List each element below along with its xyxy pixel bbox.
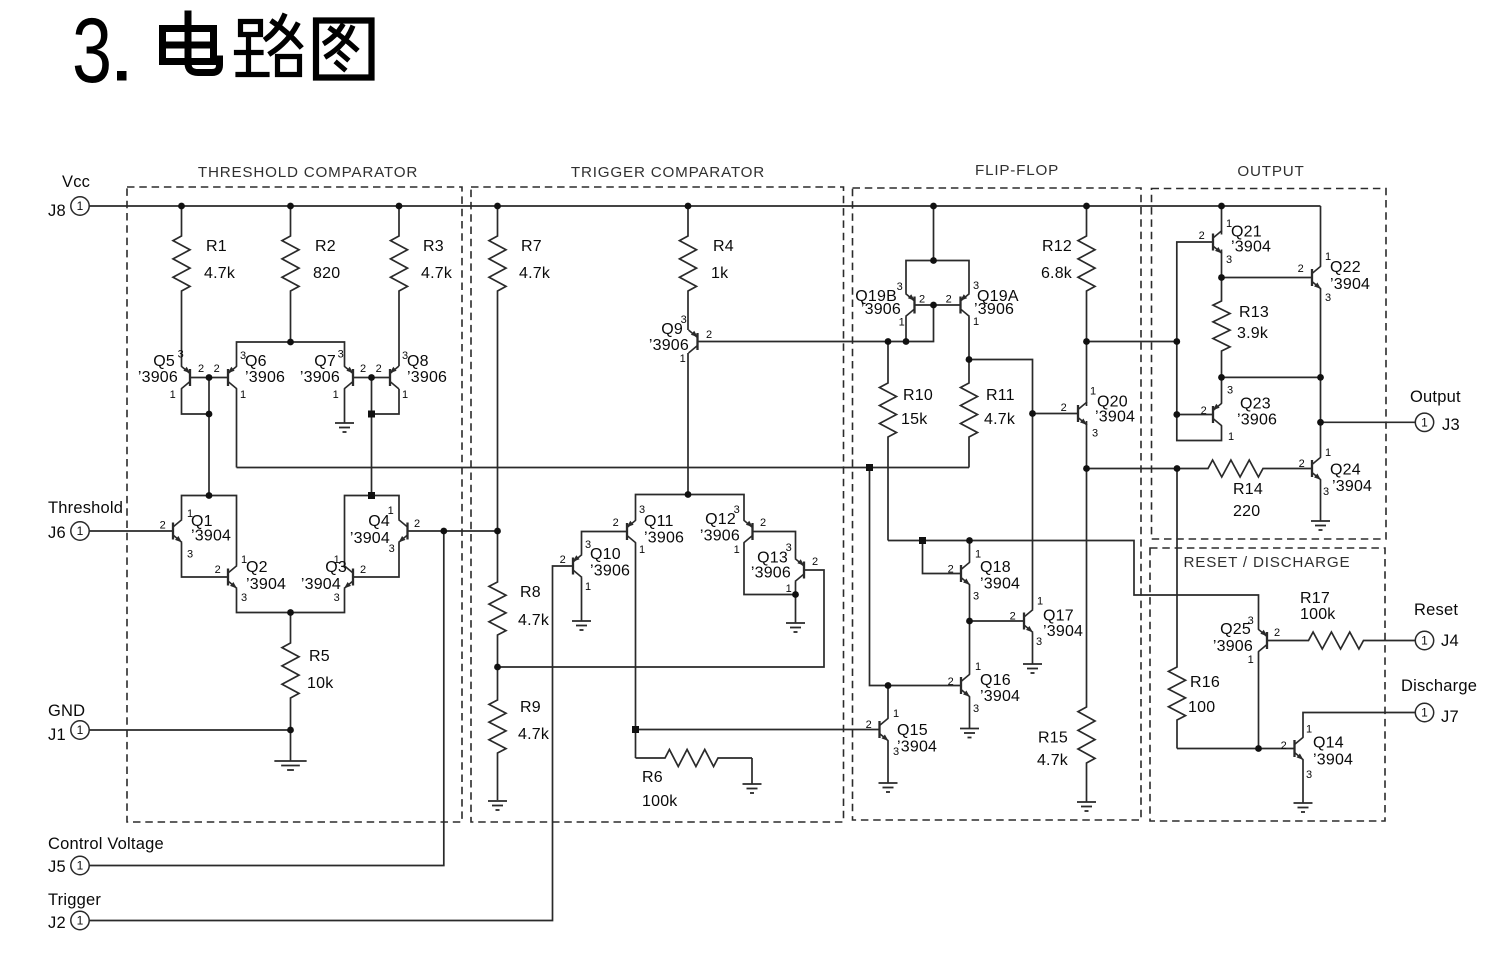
svg-text:Q10: Q10 [590,546,621,563]
svg-text:2: 2 [948,564,954,576]
junction Q19 emitters [930,257,937,264]
transistor Q15 '3904 [866,708,937,758]
wire Vcc rail [89,205,1321,207]
wire J1 GND input [89,729,291,731]
resistor R12 6.8k [1041,206,1095,342]
svg-text:3: 3 [1092,428,1098,440]
svg-text:Q5: Q5 [153,353,175,370]
resistor R16 100 [1169,469,1220,749]
wire Q20 collector to R12 [1086,342,1088,407]
svg-text:’3906: ’3906 [590,563,630,580]
svg-text:R16: R16 [1190,674,1220,691]
svg-text:3: 3 [973,703,979,715]
wire R16 bottom to Q14 base [1177,748,1295,750]
svg-text:1: 1 [1090,386,1096,398]
svg-text:2: 2 [760,517,766,529]
svg-text:2: 2 [160,520,166,532]
ground at Q17 emitter [1023,633,1042,674]
svg-text:1: 1 [899,317,905,329]
junction Q19B collector [903,338,910,345]
connector J7 pin 1 [1415,703,1433,721]
svg-text:Q25: Q25 [1220,621,1251,638]
ground at Q15 emitter [879,741,898,792]
ground at R6 [743,758,762,793]
junction R2 bottom [287,339,294,346]
connector J3 pin 1 [1415,413,1433,431]
svg-text:’3904: ’3904 [1095,409,1135,426]
junction Q5 collector tie [206,411,213,418]
junction Q21 emitter / Q22 base / R13 [1218,274,1225,281]
junction Q8 collector tie [368,411,375,418]
svg-text:2: 2 [866,719,872,731]
svg-text:2: 2 [1281,740,1287,752]
svg-text:Q11: Q11 [644,513,674,530]
ground at Q16 emitter [960,697,979,738]
svg-text:Vcc: Vcc [62,173,90,191]
svg-text:2: 2 [198,363,204,375]
svg-text:100k: 100k [1300,606,1336,623]
transistor Q4 '3904 [350,505,420,555]
ground at Q12/Q13 collectors [786,595,805,633]
svg-text:’3906: ’3906 [644,530,684,547]
wire Q18 base drop [923,541,962,574]
svg-text:’3906: ’3906 [138,369,178,386]
junction Q18 emitter / Q17 base / Q16 collector [966,618,973,625]
wire Q20 base stub [1033,413,1079,415]
resistor R2 820 [282,206,340,342]
svg-text:R14: R14 [1233,481,1263,498]
connector J6 pin 1 [71,522,89,540]
svg-text:1: 1 [1421,634,1428,648]
transistor Q9 '3906 [649,314,712,365]
svg-text:J4: J4 [1441,632,1459,650]
transistor Q19A '3906 [946,280,1019,328]
svg-text:THRESHOLD COMPARATOR: THRESHOLD COMPARATOR [198,164,418,181]
svg-text:3: 3 [72,0,112,102]
section box THRESHOLD COMPARATOR [127,187,462,822]
svg-text:1k: 1k [711,265,729,282]
junction Vcc/R1 [178,203,185,210]
svg-text:’3904: ’3904 [897,739,937,756]
svg-text:4.7k: 4.7k [204,265,236,282]
wire Q19 emitter box [906,261,969,294]
svg-text:3: 3 [241,592,247,604]
resistor R1 4.7k [173,206,236,366]
wire Q14 collector to J7 discharge [1303,713,1416,738]
transistor Q21 '3904 [1199,218,1271,266]
svg-text:J8: J8 [48,202,66,220]
transistor Q3 '3904 [301,554,366,604]
svg-text:1: 1 [585,581,591,593]
transistor Q10 '3906 [560,539,630,593]
svg-text:’3904: ’3904 [1231,239,1271,256]
svg-text:2: 2 [919,294,925,306]
svg-text:J6: J6 [48,524,66,542]
svg-text:1: 1 [1037,596,1043,608]
svg-text:J3: J3 [1442,416,1460,434]
svg-text:1: 1 [333,389,339,401]
svg-text:R2: R2 [315,238,336,255]
ground at Q24 emitter [1311,480,1330,530]
wire J5 control voltage input [89,531,444,866]
svg-text:1: 1 [77,524,84,538]
ground at Q7 collector [335,389,354,432]
junction Vcc/R2 [287,203,294,210]
svg-text:’3904: ’3904 [1332,478,1372,495]
wire Q7-Q8 base row [353,377,390,379]
junction Q19 bases [930,302,937,309]
svg-text:Q2: Q2 [246,559,268,576]
wire Vcc to Q19 box [933,206,935,261]
wire Q1 collector box [182,496,237,566]
transistor Q5 '3906 [138,349,204,402]
junction Vcc/R4 [685,203,692,210]
svg-text:R13: R13 [1239,304,1269,321]
svg-text:1: 1 [77,199,84,213]
wire trigger comparator output to Q15 base [636,729,880,731]
svg-text:’3906: ’3906 [1213,638,1253,655]
junction Q20 collector / R12 [1083,338,1090,345]
junction output stage input [1173,338,1180,345]
svg-text:’3906: ’3906 [861,301,901,318]
transistor Q19B '3906 [855,281,925,329]
svg-text:Control Voltage: Control Voltage [48,835,164,853]
svg-text:3: 3 [1036,636,1042,648]
svg-text:J2: J2 [48,914,66,932]
svg-text:R6: R6 [642,769,663,786]
wire Q2/Q3 emitter tie [237,589,345,613]
svg-text:OUTPUT: OUTPUT [1237,163,1304,180]
svg-text:Output: Output [1410,388,1461,406]
svg-text:Q22: Q22 [1330,259,1361,276]
svg-text:R3: R3 [423,238,444,255]
svg-text:TRIGGER COMPARATOR: TRIGGER COMPARATOR [571,164,765,181]
wire Q8 collector tie [372,389,400,414]
junction Q15 collector / Q16 base [885,682,892,689]
svg-text:1: 1 [680,353,686,365]
transistor Q18 '3904 [948,549,1020,603]
svg-text:Q17: Q17 [1043,608,1074,625]
resistor R6 100k [636,750,753,811]
svg-text:Trigger: Trigger [48,891,101,909]
resistor R5 10k [282,613,334,731]
svg-text:Q6: Q6 [245,353,267,370]
wire Q9 collector drop [687,353,689,495]
resistor R17 100k [1267,590,1416,649]
wire Q7/Q8 base drop to Q4 mirror [371,378,373,496]
junction Q20 emitter / R15 [1083,465,1090,472]
svg-text:Q4: Q4 [368,513,390,530]
junction Vcc/R7 [494,203,501,210]
wire Q20 emitter drop [1086,421,1088,469]
junction GND node [287,727,294,734]
ground at Q10 collector [572,578,591,631]
wire Q21 collector to rail [1221,206,1223,235]
transistor Q7 '3906 [300,349,366,402]
transistor Q8 '3906 [376,350,447,401]
junction Q9 collector / Q11 Q12 emitters [685,491,692,498]
wire Q15 collector stub [887,686,889,719]
connector J2 pin 1 [71,911,89,929]
svg-text:2: 2 [215,564,221,576]
svg-text:4.7k: 4.7k [1037,752,1069,769]
svg-text:3: 3 [334,592,340,604]
svg-text:1: 1 [1248,654,1254,666]
wire Q20 emitter row to R14 node [1087,468,1178,470]
svg-text:10k: 10k [307,675,334,692]
wire R2 bottom to Q6/Q7 emitters [237,342,345,366]
junction control voltage / Q4 base [440,528,447,535]
svg-text:100k: 100k [642,793,678,810]
transistor Q23 '3906 [1201,385,1277,444]
svg-text:3: 3 [178,349,184,361]
svg-text:1: 1 [77,859,84,873]
svg-text:3: 3 [1325,292,1331,304]
svg-text:’3904: ’3904 [350,530,390,547]
junction Q19A collector / R11 [966,356,973,363]
junction Q12/Q13 collectors [792,591,799,598]
transistor Q25 '3906 [1213,615,1280,666]
svg-text:1: 1 [170,389,176,401]
svg-text:4.7k: 4.7k [421,265,453,282]
transistor Q24 '3904 [1299,447,1372,498]
svg-text:’3906: ’3906 [300,369,340,386]
junction Q11 collector / R6 node [632,726,639,733]
transistor Q13 '3906 [751,542,818,595]
svg-text:Q14: Q14 [1313,735,1344,752]
svg-text:R11: R11 [986,387,1015,404]
svg-text:1: 1 [240,389,246,401]
transistor Q2 '3904 [215,554,286,604]
resistor R3 4.7k [391,206,453,366]
junction Q8 collector tie [368,411,375,418]
svg-text:1: 1 [77,723,84,737]
wire Q4 emitter to Q3 base [353,543,399,578]
svg-text:2: 2 [414,518,420,530]
junction R10 top [885,338,892,345]
svg-text:GND: GND [48,702,85,720]
wire Q18 collector stub [969,541,971,563]
junction Vcc/R3 [396,203,403,210]
svg-text:2: 2 [360,564,366,576]
junction Q25 collector / Q14 base [1255,745,1262,752]
svg-text:4.7k: 4.7k [519,265,551,282]
wire Q17 base stub [970,620,1025,622]
svg-text:’3906: ’3906 [974,301,1014,318]
svg-text:Q16: Q16 [980,672,1011,689]
svg-text:3: 3 [897,281,903,293]
ground at Q14 emitter [1294,760,1313,812]
svg-text:3: 3 [1226,254,1232,266]
svg-text:Q15: Q15 [897,722,928,739]
svg-text:2: 2 [360,363,366,375]
svg-text:15k: 15k [901,411,928,428]
transistor Q12 '3906 [700,504,766,556]
junction Q5 base [206,374,213,381]
svg-text:’3906: ’3906 [245,369,285,386]
svg-text:R12: R12 [1042,238,1072,255]
wire Q23 emitter stub [1221,377,1223,403]
svg-text:1: 1 [1421,416,1428,430]
svg-text:3: 3 [973,591,979,603]
wire Q11/Q12 emitter box [636,495,745,521]
wire Q25 collector drop [1258,652,1260,749]
svg-text:’3906: ’3906 [649,337,689,354]
junction Q18 base node [919,537,926,544]
svg-text:3.9k: 3.9k [1237,325,1269,342]
connector J8 pin 1 [71,197,89,215]
wire Q5/Q6 base drop to Q1 mirror [208,378,210,496]
wire Q21 base / Q23 collector loop [1177,242,1222,441]
svg-text:1: 1 [1325,447,1331,459]
junction Vcc/Q19 [930,203,937,210]
svg-text:’3904: ’3904 [301,576,341,593]
svg-text:’3906: ’3906 [1237,412,1277,429]
svg-text:R4: R4 [713,238,734,255]
svg-text:2: 2 [613,517,619,529]
wire J6 threshold input to Q1 base [89,530,174,532]
svg-text:2: 2 [812,556,818,568]
svg-text:2: 2 [1199,230,1205,242]
svg-text:’3906: ’3906 [751,565,791,582]
svg-text:3: 3 [187,549,193,561]
svg-text:2: 2 [376,363,382,375]
svg-text:1: 1 [77,914,84,928]
svg-text:2: 2 [706,329,712,341]
junction Vcc/Q21 [1218,203,1225,210]
svg-text:2: 2 [1061,402,1067,414]
junction Q18 collector / R11 node [966,537,973,544]
junction Q4 collector node [368,492,375,499]
wire Q5-Q6 base row [190,377,228,379]
wire Q18 emitter to node [969,585,971,621]
svg-text:100: 100 [1188,699,1215,716]
wire Q4 base to R7/R8 divider [408,530,498,532]
resistor R15 4.7k [1037,469,1095,803]
junction Q23 base [1173,411,1180,418]
svg-text:R17: R17 [1300,590,1330,607]
svg-text:Q23: Q23 [1240,396,1271,413]
wire Q5 collector tie [182,389,210,414]
ground at R15 bottom [1077,802,1096,811]
svg-text:J7: J7 [1441,708,1459,726]
wire Q19B-Q19A base row [915,304,961,306]
svg-text:2: 2 [1010,611,1016,623]
junction Q1 collector node [206,492,213,499]
svg-text:Q24: Q24 [1330,462,1361,479]
wire Q6 collector drop [236,389,238,468]
svg-text:1: 1 [402,389,408,401]
wire Q9 base to flip-flop [698,305,934,342]
junction Q20 base [1029,410,1036,417]
svg-text:J5: J5 [48,858,66,876]
svg-text:Q9: Q9 [661,321,683,338]
junction R13 / Q23 emitter [1218,374,1225,381]
wire Q11 collector drop [635,543,637,730]
svg-text:3: 3 [1227,385,1233,397]
connector J1 pin 1 [71,721,89,739]
svg-text:Q12: Q12 [705,511,736,528]
wire Q19B collector drop [905,317,907,342]
wire Q21 emitter to Q22 base [1222,277,1313,279]
resistor R8 4.7k [489,531,550,667]
svg-text:Q7: Q7 [314,353,336,370]
svg-text:2: 2 [948,676,954,688]
wire Q22 emitter to Q24 collector [1320,289,1322,457]
connector J5 pin 1 [71,856,89,874]
transistor Q16 '3904 [948,661,1020,715]
svg-text:Threshold: Threshold [48,499,123,517]
svg-text:1: 1 [786,583,792,595]
svg-text:’3906: ’3906 [700,528,740,545]
transistor Q22 '3904 [1298,251,1370,304]
wire Q12 collector tie [744,543,796,595]
section box RESET/DISCHARGE [1150,548,1385,821]
ground at R5 / J1 [274,730,306,770]
wire threshold comparator output (long) [237,467,970,469]
junction Q22 emitter / R13 row [1317,374,1324,381]
wire Q16 collector stub [969,621,971,674]
svg-text:220: 220 [1233,503,1260,520]
wire Vcc corner to Q22 collector [1320,206,1322,266]
svg-text:Reset: Reset [1414,601,1458,619]
svg-text:’3904: ’3904 [1043,623,1083,640]
svg-text:1: 1 [1306,724,1312,736]
junction Q7 base [368,374,375,381]
svg-text:3: 3 [1306,769,1312,781]
resistor R10 15k [880,342,933,541]
wire Q21 emitter drop [1221,250,1223,278]
transistor Q6 '3906 [214,350,285,401]
wire Q10 emitter to Q11 base [582,532,628,555]
svg-text:4.7k: 4.7k [518,612,550,629]
svg-text:’3904: ’3904 [980,688,1020,705]
wire R10 node to reset section [888,541,1259,630]
svg-text:R5: R5 [309,648,330,665]
connector J4 pin 1 [1415,631,1433,649]
svg-text:2: 2 [214,363,220,375]
wire flip-flop output to output stage [1087,341,1177,343]
transistor Q1 '3904 [160,508,231,561]
svg-text:1: 1 [1421,706,1428,720]
resistor R7 4.7k [489,206,551,531]
svg-text:’3904: ’3904 [191,528,231,545]
wire comparator node to Q16 base [870,468,962,686]
svg-text:2: 2 [1298,263,1304,275]
svg-text:Q8: Q8 [407,353,429,370]
svg-text:R8: R8 [520,584,541,601]
svg-text:R7: R7 [521,238,542,255]
wire Q19A collector drop [968,317,970,360]
svg-text:2: 2 [1299,458,1305,470]
svg-text:’3904: ’3904 [980,576,1020,593]
svg-text:’3904: ’3904 [1313,752,1353,769]
svg-text:2: 2 [1274,627,1280,639]
wire Q12 base to Q13 emitter [753,532,796,559]
svg-text:2: 2 [946,294,952,306]
junction R5 top [287,609,294,616]
svg-text:’3904: ’3904 [246,576,286,593]
transistor Q14 '3904 [1281,724,1353,782]
svg-text:R15: R15 [1038,730,1068,747]
svg-text:R9: R9 [520,699,541,716]
resistor R9 4.7k [489,667,550,800]
svg-text:3: 3 [1323,486,1329,498]
svg-text:Discharge: Discharge [1401,677,1477,695]
wire Q23 base stub [1177,414,1213,416]
resistor R4 1k [680,206,734,330]
resistor R11 4.7k [961,360,1016,468]
